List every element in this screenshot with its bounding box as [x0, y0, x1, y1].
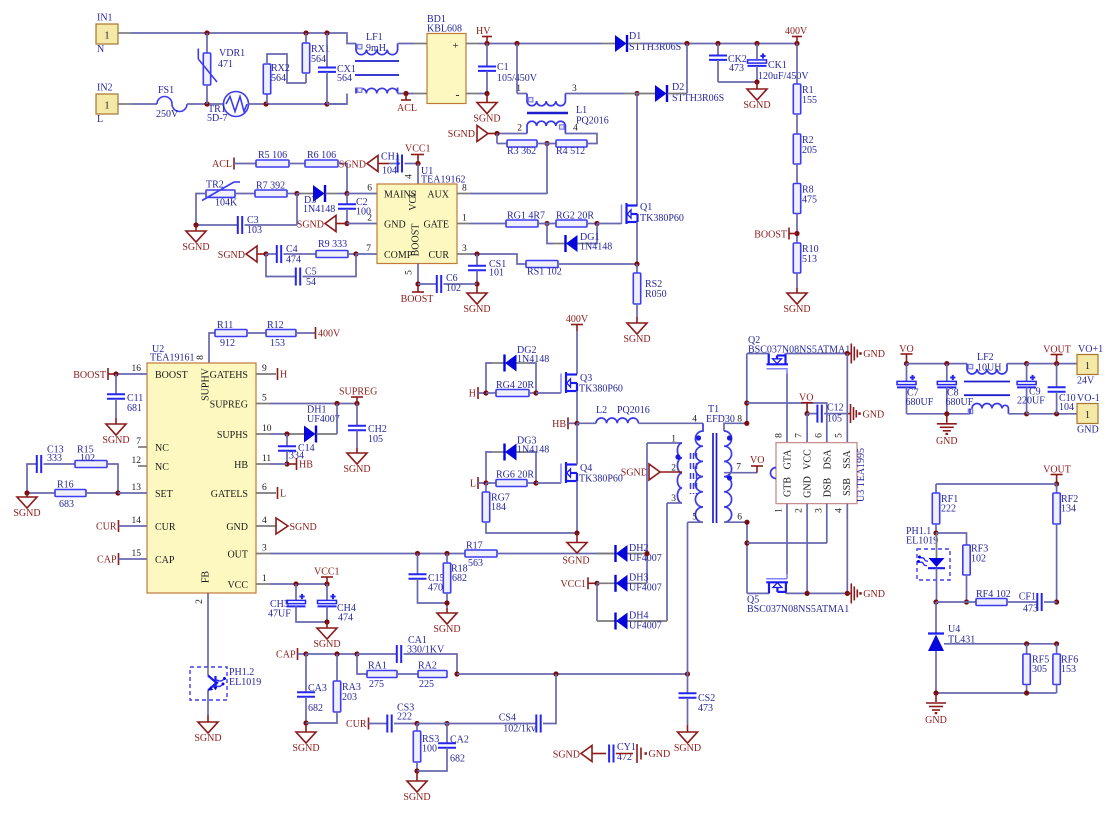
capacitor C14 [286, 434, 288, 446]
svg-text:VO: VO [750, 455, 764, 466]
node ACL [403, 91, 408, 96]
junction [1054, 641, 1059, 646]
svg-text:305: 305 [1032, 664, 1047, 675]
svg-text:CUR: CUR [155, 522, 176, 533]
T1 polarity dot [696, 435, 701, 440]
svg-text:HB: HB [234, 460, 248, 471]
pin 6 GATELS / node L [256, 492, 276, 494]
svg-text:100: 100 [422, 744, 437, 755]
junction [415, 161, 420, 166]
svg-text:SGND: SGND [783, 304, 810, 315]
svg-text:TK380P60: TK380P60 [579, 384, 623, 395]
capacitor CH3 [295, 584, 297, 600]
junction [944, 361, 949, 366]
svg-text:R4 512: R4 512 [556, 146, 585, 157]
capacitor CK1 [756, 44, 758, 60]
resistor R8 [793, 184, 800, 214]
wire AUX net [546, 144, 548, 195]
junction [494, 131, 499, 136]
junction [1054, 481, 1059, 486]
svg-text:UF4007: UF4007 [629, 583, 662, 594]
svg-text:BOOST: BOOST [73, 370, 106, 381]
svg-text:SGND: SGND [218, 250, 245, 261]
svg-text:102/1kv: 102/1kv [503, 724, 536, 735]
svg-text:SUPHS: SUPHS [217, 430, 248, 441]
wire SUPHS pin10 [256, 433, 270, 435]
wire D1 to 400V rail [628, 43, 641, 45]
junction [334, 401, 339, 406]
svg-text:R9 333: R9 333 [318, 239, 347, 250]
node CAP [297, 648, 299, 660]
svg-text:IN2: IN2 [97, 83, 113, 94]
junction [334, 651, 339, 656]
junction [415, 281, 420, 286]
junction [754, 41, 759, 46]
wire CUR pin3 [457, 253, 470, 255]
wire DSB riser [826, 504, 828, 543]
junction [933, 530, 938, 535]
svg-text:VCC1: VCC1 [560, 579, 586, 590]
junction [574, 421, 579, 426]
junction [354, 401, 359, 406]
transistor Q4 [560, 464, 562, 484]
junction [303, 720, 308, 725]
svg-text:683: 683 [59, 499, 74, 510]
svg-text:DSA: DSA [822, 449, 833, 470]
capacitor C1 [486, 44, 488, 67]
wire Q5 drain row [786, 592, 847, 594]
transistor Q3 [560, 374, 562, 394]
svg-text:SGND: SGND [343, 464, 370, 475]
svg-text:1N4148: 1N4148 [517, 445, 549, 456]
resistor RF2 [1056, 484, 1058, 493]
svg-text:GND: GND [649, 749, 671, 760]
svg-text:SGND: SGND [473, 114, 500, 125]
svg-text:GND: GND [925, 715, 947, 726]
svg-text:4: 4 [405, 174, 415, 179]
wire T1 pin3 to DH4 [666, 503, 668, 621]
svg-text:SUPREG: SUPREG [339, 387, 377, 398]
wire L2 to T1 pin4 [638, 422, 703, 424]
capacitor C15 [417, 554, 419, 575]
junction [444, 721, 449, 726]
wire [796, 114, 798, 134]
svg-text:LF2: LF2 [977, 352, 994, 363]
svg-text:ACL: ACL [212, 159, 232, 170]
shunt regulator U4 TL431 [935, 602, 937, 634]
wire T1 pin6 [746, 522, 748, 593]
svg-text:L: L [470, 479, 476, 490]
resistor R4 [537, 143, 556, 145]
ground SGND [195, 225, 197, 231]
svg-text:SSA: SSA [842, 450, 853, 469]
junction [483, 480, 488, 485]
junction [324, 581, 329, 586]
capacitor CH1 [389, 163, 398, 165]
svg-text:7: 7 [795, 433, 805, 438]
wire TR1 to CX1 [249, 103, 267, 105]
wire VCC pin4 [417, 164, 419, 185]
capacitor CH4 [326, 584, 328, 600]
svg-text:912: 912 [220, 338, 235, 349]
svg-text:GND: GND [936, 436, 958, 447]
capacitor CS3 [369, 723, 388, 725]
wire VO return row [907, 413, 971, 415]
wire [796, 273, 798, 288]
svg-text:N: N [97, 44, 104, 55]
junction [483, 390, 488, 395]
svg-text:6: 6 [262, 483, 267, 493]
wire fuse to TR1 [187, 103, 224, 105]
junction [294, 191, 299, 196]
svg-text:SGND: SGND [102, 435, 129, 446]
svg-text:SGND: SGND [463, 304, 490, 315]
resistor R5 [234, 163, 256, 165]
wire VO rail [907, 363, 968, 365]
wire to SGND [207, 691, 209, 716]
svg-text:SGND: SGND [339, 160, 366, 171]
node VCC1 [417, 155, 419, 164]
resistor RF6 [1056, 644, 1058, 654]
svg-text:6: 6 [815, 433, 825, 438]
resistor RA2 [397, 673, 418, 675]
capacitor CY1 [608, 745, 610, 763]
capacitor CA2 [446, 724, 448, 744]
wire T1 pin5 [687, 522, 689, 674]
svg-text:564: 564 [271, 73, 286, 84]
svg-text:C12: C12 [827, 403, 844, 414]
junction [24, 490, 29, 495]
resistor RG4 [486, 392, 496, 394]
svg-text:1: 1 [671, 435, 676, 445]
node HV [484, 41, 489, 46]
svg-text:GND: GND [384, 220, 406, 231]
capacitor C6 [418, 283, 437, 285]
junction [263, 251, 268, 256]
svg-text:NC: NC [155, 462, 169, 473]
svg-text:SUPHV: SUPHV [201, 367, 212, 401]
wire Q1 source [636, 222, 638, 264]
node VCC1 [587, 577, 589, 589]
junction [933, 690, 938, 695]
svg-text:FS1: FS1 [158, 85, 174, 96]
svg-text:R6 106: R6 106 [307, 150, 336, 161]
T1 pin7 tap / node VO [724, 472, 757, 474]
capacitor C5 [266, 254, 296, 277]
wire MAINS pin6 [347, 193, 377, 195]
resistor R10 [793, 243, 800, 273]
node HB [567, 417, 569, 429]
svg-text:UF4007: UF4007 [307, 414, 340, 425]
svg-text:C5: C5 [305, 267, 317, 278]
svg-text:8: 8 [462, 184, 467, 194]
svg-text:16: 16 [132, 364, 142, 374]
svg-text:D2: D2 [672, 82, 684, 93]
junction [454, 671, 459, 676]
ground SGND [305, 723, 307, 732]
svg-text:LF1: LF1 [366, 32, 383, 43]
junction [1054, 411, 1059, 416]
junction [324, 101, 329, 106]
wire VCC pin1 [256, 583, 270, 585]
svg-text:680UF: 680UF [906, 397, 934, 408]
svg-text:2: 2 [795, 508, 805, 513]
svg-text:1: 1 [1085, 361, 1090, 372]
svg-text:4: 4 [835, 508, 845, 513]
svg-text:203: 203 [342, 692, 357, 703]
capacitor C13 [27, 464, 37, 493]
capacitor C4 [266, 253, 277, 255]
resistor RF3 [963, 545, 970, 575]
wire SSB riser [846, 504, 848, 594]
junction [805, 411, 810, 416]
svg-text:564: 564 [311, 54, 326, 65]
svg-text:CA2: CA2 [450, 735, 469, 746]
ground SGND at T1 pin2 [649, 464, 660, 480]
node VCC1 [326, 577, 328, 584]
ground SGND symbol [581, 746, 592, 762]
svg-text:7: 7 [736, 463, 741, 473]
inductor L1 primary winding [516, 44, 518, 94]
power ground GND [946, 414, 948, 423]
svg-text:SGND: SGND [290, 522, 317, 533]
L1 secondary winding [527, 121, 565, 133]
node L [477, 477, 479, 489]
node ACL [233, 158, 235, 170]
capacitor CK2 [717, 44, 719, 56]
svg-text:RA1: RA1 [368, 661, 387, 672]
svg-text:102: 102 [80, 453, 95, 464]
junction [594, 221, 599, 226]
capacitor C7 [906, 364, 908, 382]
svg-text:563: 563 [468, 558, 483, 569]
svg-text:54: 54 [306, 277, 316, 288]
svg-text:SUPREG: SUPREG [210, 400, 248, 411]
ground SGND [446, 608, 448, 613]
svg-text:155: 155 [802, 95, 817, 106]
svg-text:104K: 104K [215, 198, 238, 209]
svg-text:5: 5 [262, 394, 267, 404]
svg-text:473: 473 [1023, 604, 1038, 615]
T1 polarity dot [727, 435, 732, 440]
resistor RG7 [485, 483, 487, 492]
svg-text:6: 6 [737, 513, 742, 523]
LF2 bottom winding [968, 409, 972, 413]
svg-text:SGND: SGND [297, 220, 324, 231]
junction [933, 599, 938, 604]
junction [533, 390, 538, 395]
svg-text:102: 102 [971, 554, 986, 565]
svg-text:Q4: Q4 [580, 463, 592, 474]
wire Q1 drain [636, 94, 638, 206]
connector IN1 [96, 24, 118, 44]
ground SGND [756, 82, 758, 89]
junction [263, 101, 268, 106]
wire HB pin11 [256, 463, 270, 465]
svg-text:471: 471 [218, 59, 233, 70]
junction [634, 91, 639, 96]
junction [544, 141, 549, 146]
wire COMP pin7 [356, 253, 377, 255]
connector IN2 [96, 94, 118, 114]
svg-text:GND: GND [863, 349, 885, 360]
svg-text:EL1019: EL1019 [906, 536, 938, 547]
svg-text:GND: GND [1077, 425, 1099, 436]
svg-text:COMP: COMP [384, 250, 413, 261]
ground SGND [477, 126, 488, 142]
svg-text:GND: GND [226, 522, 248, 533]
svg-text:12: 12 [132, 456, 142, 466]
svg-text:H: H [280, 370, 287, 381]
T1 shield dashes [690, 453, 692, 494]
svg-text:4: 4 [692, 415, 697, 425]
junction [1054, 599, 1059, 604]
svg-text:SGND: SGND [182, 242, 209, 253]
svg-text:CAP: CAP [155, 555, 175, 566]
svg-text:SGND: SGND [292, 743, 319, 754]
junction [1024, 690, 1029, 695]
wire to VOUT [1027, 363, 1077, 365]
svg-text:400V: 400V [318, 329, 341, 340]
svg-text:2: 2 [195, 599, 205, 604]
svg-text:VCC1: VCC1 [405, 144, 431, 155]
wire pin3 to D2 [565, 93, 624, 95]
svg-text:GTB: GTB [783, 477, 794, 497]
capacitor C8 [946, 364, 948, 382]
svg-text:ACL: ACL [397, 103, 417, 114]
svg-text:205: 205 [802, 145, 817, 156]
svg-text:7: 7 [366, 244, 371, 254]
junction [544, 221, 549, 226]
svg-text:680UF: 680UF [946, 397, 974, 408]
capacitor CA3 [305, 654, 307, 692]
wire GTB riser [786, 504, 788, 574]
svg-text:U4: U4 [948, 624, 960, 635]
svg-text:CS4: CS4 [499, 713, 516, 724]
svg-text:TEA19162: TEA19162 [421, 175, 465, 186]
svg-text:9: 9 [262, 364, 267, 374]
LF1 core [355, 60, 399, 62]
svg-text:L: L [97, 114, 103, 125]
junction [754, 79, 759, 84]
capacitor C11 [115, 374, 117, 394]
svg-text:R3 362: R3 362 [507, 146, 536, 157]
wire LF1 to BD1 bottom [398, 93, 414, 95]
wire BD1- to C1 [466, 93, 479, 95]
svg-text:1: 1 [462, 214, 467, 224]
resistor R2 [793, 134, 800, 164]
wire Q4 source [576, 481, 578, 533]
capacitor C10 [1056, 364, 1058, 388]
wire Q4 drain [576, 423, 578, 464]
junction [344, 221, 349, 226]
wire N bus [118, 32, 131, 34]
svg-text:SGND: SGND [621, 468, 648, 479]
resistor RA3 [336, 654, 338, 681]
junction [684, 41, 689, 46]
ground SGND [325, 216, 336, 232]
resistor RF5 [1026, 644, 1028, 654]
wire T1 pin1 to DH2 [646, 443, 648, 583]
svg-text:VO: VO [799, 393, 813, 404]
junction [303, 651, 308, 656]
junction [1054, 361, 1059, 366]
wire LF2 to C9 top [1007, 363, 1027, 365]
svg-text:3: 3 [462, 244, 467, 254]
pin 4 GND / ground SGND [256, 525, 276, 527]
junction [293, 581, 298, 586]
svg-text:STTH3R06S: STTH3R06S [672, 93, 724, 104]
capacitor CS4 [417, 723, 447, 725]
diode DH3 [597, 582, 615, 584]
svg-text:682: 682 [450, 754, 465, 765]
wire VCC riser [806, 414, 808, 443]
diode DH2 [597, 553, 615, 555]
capacitor CS2 [687, 674, 689, 693]
junction [444, 600, 449, 605]
capacitor C12 [807, 413, 817, 415]
svg-text:8: 8 [196, 355, 206, 360]
svg-text:TK380P60: TK380P60 [579, 474, 623, 485]
svg-text:VCC: VCC [408, 190, 419, 211]
svg-text:EFD30: EFD30 [706, 414, 735, 425]
svg-text:SGND: SGND [623, 334, 650, 345]
wire GND pin2 [347, 223, 377, 225]
junction [1024, 411, 1029, 416]
ground SGND symbol [367, 156, 378, 172]
power ground GND [847, 413, 850, 415]
junction [744, 540, 749, 545]
svg-text:3: 3 [262, 544, 267, 554]
ground SGND [476, 284, 478, 293]
wire [796, 214, 798, 244]
capacitor C2 [346, 194, 348, 205]
svg-text:101: 101 [489, 268, 504, 279]
svg-text:1: 1 [105, 31, 110, 42]
ground SGND [207, 715, 209, 722]
wire to RF3 [936, 533, 967, 545]
junction [944, 411, 949, 416]
junction [284, 431, 289, 436]
power ground GND [847, 353, 851, 355]
wire HV rail to D1 [517, 43, 602, 45]
junction [344, 191, 349, 196]
junction [533, 480, 538, 485]
svg-text:C1: C1 [497, 62, 509, 73]
svg-text:RA2: RA2 [418, 661, 437, 672]
junction [744, 400, 749, 405]
svg-text:250V: 250V [156, 109, 179, 120]
svg-text:R12: R12 [267, 320, 284, 331]
svg-text:TR2: TR2 [206, 180, 224, 191]
svg-text:5: 5 [835, 433, 845, 438]
optocoupler PH1.2 [190, 667, 227, 700]
svg-text:470: 470 [428, 583, 443, 594]
svg-text:SGND: SGND [313, 639, 340, 650]
svg-text:1: 1 [105, 101, 110, 112]
wire SUPREG pin5 [256, 403, 270, 405]
svg-text:GTA: GTA [783, 449, 794, 470]
svg-text:CK1: CK1 [768, 60, 787, 71]
svg-text:Q3: Q3 [580, 373, 592, 384]
svg-text:102: 102 [446, 283, 461, 294]
svg-text:564: 564 [337, 73, 352, 84]
svg-text:BOOST: BOOST [155, 370, 188, 381]
junction [845, 591, 850, 596]
diode DG3 [486, 452, 492, 483]
svg-text:R5 106: R5 106 [258, 150, 287, 161]
pin 9 GATEHS / node H [256, 373, 276, 375]
